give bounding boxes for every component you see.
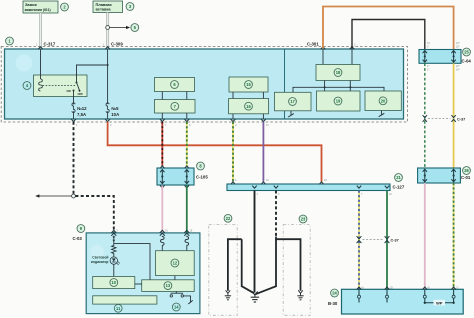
svg-text:18: 18 (336, 70, 341, 75)
callout 4 (23, 82, 31, 90)
C-37 right mating dashes and label (428, 118, 451, 120)
wire pink C-01 to B-30 (424, 183, 426, 289)
node on fusible wire with reference arrow to 5 (106, 26, 131, 30)
wire fuse5 to exit (107, 111, 109, 119)
inline connector C-37 left on green wire (385, 236, 390, 243)
svg-text:16: 16 (246, 104, 251, 109)
svg-text:12: 12 (173, 261, 178, 266)
component box 6 (155, 78, 195, 92)
svg-text:№5: №5 (111, 106, 119, 111)
exit arrows box7 (160, 119, 165, 122)
connector C-105 (157, 168, 194, 185)
watermark circle (16, 55, 33, 72)
fuse No12 (72, 103, 75, 113)
right ground symbol (297, 293, 303, 300)
OFF contact (79, 90, 81, 92)
wires box7 to exits (161, 113, 163, 119)
svg-text:7,5A: 7,5A (77, 112, 86, 117)
link box13 to switch 14 (175, 291, 177, 293)
wire yellow C-04 to C-37 to C-01 (453, 63, 455, 168)
svg-text:19*: 19* (456, 68, 460, 71)
B-30 internal WP link (424, 300, 455, 306)
wire C-317 entry to coil (40, 49, 42, 79)
svg-text:Световой: Световой (92, 255, 108, 259)
svg-text:B-30: B-30 (328, 301, 338, 306)
component box 11 (93, 296, 157, 304)
component box 10 (93, 277, 135, 289)
svg-text:10: 10 (112, 280, 117, 285)
inline connector C-37 left on yellow-blue wire (357, 236, 362, 243)
callout 22 (224, 214, 232, 222)
wire dashed stem joins middle (256, 239, 277, 294)
wire green C-127 to B-30 (386, 191, 388, 290)
divider between left block and right block (284, 49, 286, 119)
C-105 pin pass-through left (160, 169, 164, 184)
svg-text:C-37: C-37 (391, 239, 399, 243)
svg-text:10A: 10A (111, 112, 119, 117)
wire red-black dashed box7 to C-105 (161, 122, 163, 166)
resistor on indicator branch (112, 244, 116, 257)
switch blade to OFF (77, 83, 80, 91)
relay K (component 4) (34, 75, 88, 97)
exit arrow fuse5 (105, 119, 110, 122)
B-30 pin terminal 2 (386, 289, 389, 302)
arrow into left ground (226, 290, 231, 293)
wire yellow-blue dashed C-127 to B-30 (358, 191, 360, 290)
component box 20 (365, 91, 401, 111)
callout 13 (164, 282, 172, 290)
svg-text:22: 22 (226, 216, 231, 221)
svg-text:20*: 20* (456, 46, 460, 49)
C-01 pin pass-through right (451, 169, 455, 182)
B-30 pin terminal 4 (452, 289, 455, 303)
svg-text:OFF: OFF (78, 92, 84, 96)
inline connector C-37 right on green wire (423, 115, 427, 122)
svg-text:вставка: вставка (96, 7, 112, 12)
relay actuating dashed link (43, 85, 77, 87)
B-30 pin terminal 3 (423, 289, 426, 303)
connector C-04 (419, 50, 461, 64)
B-30 pin terminal 1 (358, 289, 361, 302)
instrument cluster C-03 body (86, 233, 200, 314)
wire green C-105 to C-03 (186, 186, 188, 233)
wire pink C-105 to C-03 (161, 186, 163, 233)
component box 18 (316, 65, 360, 81)
internal ground under box 17 (288, 111, 294, 117)
junction box B-30 body (342, 289, 464, 314)
black link wire C-301 pin2 to C-04 (352, 20, 425, 50)
C-04 pin pass-through right (451, 51, 455, 63)
svg-text:ON: ON (67, 89, 71, 93)
ON contact (73, 90, 75, 92)
C-01 pin pass-through left (423, 169, 427, 182)
wire orange-red fuse5 to C-127 (108, 122, 322, 182)
callout 21 (395, 174, 403, 182)
entry arrow C-301 pin 2 (350, 47, 355, 50)
coil below pin 15 (161, 236, 165, 251)
svg-text:зажигания (IG1): зажигания (IG1) (25, 8, 51, 12)
callout 5 (131, 24, 139, 32)
links 6-7 (161, 92, 163, 100)
connector bar C-127 (227, 184, 390, 191)
node with page arrow (35, 194, 75, 198)
fusible link box (Плавкая вставка) (93, 1, 123, 13)
rail junction dots (324, 86, 326, 88)
connector C-01 (418, 168, 461, 183)
svg-text:C-309: C-309 (111, 42, 123, 47)
switch 14 (170, 293, 193, 304)
svg-text:17: 17 (290, 99, 295, 104)
C-127 exit arrows (252, 186, 256, 189)
component box 7 (155, 100, 196, 114)
wire black-white dashed fuse12 down (73, 122, 75, 194)
C-105 pin pass-through right (185, 169, 189, 184)
wire fusible link to C-309 (white) (107, 13, 109, 48)
wire yellow-green dashed box7 to C-105 (186, 122, 188, 166)
component box 19 (317, 91, 361, 111)
C-03 entry arrows (111, 230, 116, 236)
callout 26 (463, 167, 471, 175)
svg-text:№12: №12 (77, 106, 87, 111)
middle ground symbol (251, 295, 259, 302)
exit arrows box16 (231, 119, 236, 122)
svg-text:WP: WP (436, 300, 443, 305)
callout 18 (334, 69, 342, 77)
wire black C-127 to main ground (254, 191, 256, 293)
wire purple box16 to C-127 (262, 122, 264, 182)
component box 12 (156, 251, 195, 276)
svg-text:1*: 1* (427, 68, 429, 71)
links 15-16 (232, 92, 234, 99)
link box10 to box13 (135, 283, 142, 285)
component box 13 (142, 280, 195, 292)
C-105 exit arrows (160, 185, 164, 188)
B-30 entry arrows (357, 287, 362, 290)
wire ignition to C-317 (white) (40, 13, 42, 48)
svg-text:Замок: Замок (25, 2, 37, 7)
wire yellow-green dashed box16 to C-127 (232, 122, 234, 182)
wire black-white dashed node to C-03 (75, 196, 113, 233)
svg-text:C-301: C-301 (307, 42, 319, 47)
callout 11 (114, 304, 122, 312)
wire ON contact down to fuse 12 (73, 91, 75, 105)
svg-text:11: 11 (116, 306, 121, 311)
svg-text:1O: 1O (390, 286, 393, 289)
C-105 entry arrows (160, 166, 164, 169)
wire left stem joins middle (242, 239, 254, 293)
distribution rail (293, 87, 384, 92)
svg-text:19: 19 (336, 99, 341, 104)
fuse No5 (106, 103, 109, 113)
component box 16 (229, 99, 269, 114)
link box12 to box13 (174, 276, 176, 280)
risers box18 to box19 (324, 81, 326, 92)
internal ground under box 20 (379, 111, 385, 117)
svg-text:C-04: C-04 (462, 59, 472, 64)
callout 9 (77, 225, 85, 233)
svg-text:6I: 6I (362, 286, 364, 289)
terminal marks below pin 2 (113, 236, 115, 244)
C-04 pin pass-through left (423, 51, 427, 63)
entry arrow C-309 (105, 47, 110, 50)
callout 3 (126, 3, 134, 11)
svg-text:25: 25 (464, 50, 469, 55)
left ground symbol (225, 293, 231, 300)
callout 19 (334, 97, 342, 105)
relay coil (39, 79, 43, 91)
wire right ground branch (276, 237, 301, 291)
callout 16 (245, 102, 253, 110)
arrow into right ground (298, 290, 303, 293)
callout 8 (197, 162, 205, 170)
coil below pin 16 (185, 236, 189, 251)
watermark circle 2 (90, 245, 104, 259)
svg-text:1*: 1* (427, 46, 429, 49)
callout 25 (463, 48, 471, 56)
arrow into middle ground (252, 292, 257, 296)
svg-text:8I: 8I (428, 286, 430, 289)
wire green-white C-04 to C-37 to C-01 (424, 63, 426, 168)
entry arrow C-317 (38, 47, 43, 50)
LED indicator (Световой индикатор) (110, 257, 120, 265)
callout 12 (171, 259, 179, 267)
svg-text:23: 23 (301, 217, 306, 222)
component box 17 (275, 92, 312, 111)
wire junction to switch common (77, 65, 108, 83)
orange link wire C-301 pin1 to C-04 (323, 7, 454, 50)
callout 7 (171, 102, 179, 110)
C-37 left mating dashes and label (363, 239, 384, 241)
ground branch dashed box 22 (209, 225, 237, 316)
svg-text:1I: 1I (456, 286, 458, 289)
svg-text:15: 15 (246, 82, 251, 87)
component box 15 (229, 77, 268, 92)
svg-text:13: 13 (166, 283, 171, 288)
switch common contact (76, 82, 78, 84)
wire fuse12 to exit (73, 111, 75, 119)
unit 1 outer dashed enclosure (1, 47, 407, 123)
svg-text:20: 20 (381, 98, 386, 103)
svg-text:C-105: C-105 (196, 175, 208, 180)
callout 1 (6, 37, 14, 45)
callout 10 (110, 279, 118, 287)
junction node (107, 64, 109, 66)
C-127 entry arrows (231, 182, 235, 185)
wires C-301 entries down to box 18 (322, 49, 324, 65)
exit arrow fuse12 (71, 119, 76, 122)
callout 15 (245, 81, 253, 89)
svg-text:C-127: C-127 (393, 185, 405, 190)
wires box16 to exits (232, 114, 234, 119)
wire yellow-green C-01 to B-30 (453, 183, 455, 289)
svg-text:14: 14 (174, 305, 179, 310)
wire left ground branch (228, 239, 242, 291)
svg-text:21: 21 (396, 175, 401, 180)
ignition switch box (Замок зажигания IG1) (23, 1, 58, 13)
entry arrow C-301 pin 1 (321, 47, 326, 50)
svg-text:C-317: C-317 (44, 42, 56, 47)
callout 2 (61, 3, 69, 11)
callout 23 (299, 215, 307, 223)
svg-text:C-01: C-01 (461, 175, 471, 180)
branch pin2 to box 13 (114, 244, 150, 280)
wire C-309 down to fuse 5 (107, 49, 109, 104)
svg-text:26: 26 (464, 168, 469, 173)
main cyan junction block body (5, 49, 404, 119)
callout 17 (289, 98, 297, 106)
callout 6 (171, 81, 179, 89)
svg-text:индикатор: индикатор (91, 260, 109, 264)
svg-text:24: 24 (332, 291, 337, 296)
inline connector C-37 right on yellow wire (451, 115, 455, 122)
svg-text:C-03: C-03 (73, 236, 83, 241)
svg-text:C-37: C-37 (457, 118, 465, 122)
callout 24 (331, 289, 339, 297)
wire LED to box 10 (113, 264, 115, 276)
wire black-white dashed C-127 down (275, 191, 277, 237)
ground branch dashed box 23 (283, 225, 310, 316)
callout 14 (172, 303, 180, 311)
callout 20 (379, 97, 387, 105)
